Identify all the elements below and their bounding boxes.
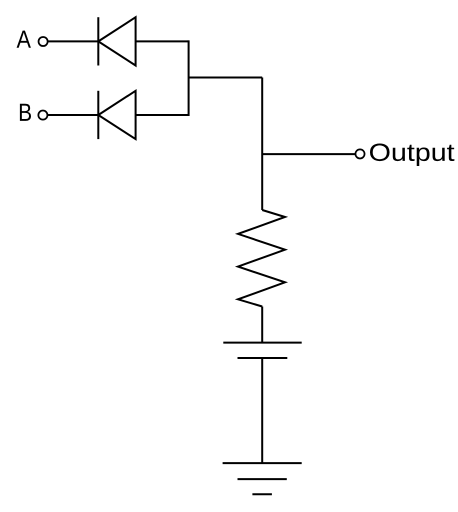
battery V1	[223, 343, 301, 358]
wire resistor to battery	[261, 307, 263, 343]
resistor R1	[238, 210, 285, 307]
wire main vertical to resistor	[261, 78, 263, 211]
wire junction to main vertical	[189, 77, 263, 79]
label B	[20, 104, 31, 121]
input terminal B	[38, 111, 47, 120]
output terminal	[355, 149, 364, 158]
input terminal A	[39, 37, 48, 46]
label Output	[370, 144, 454, 167]
wire joining diode outputs (vertical)	[188, 40, 190, 116]
label A	[17, 31, 31, 48]
diode D1	[98, 17, 135, 65]
wire diode D2 to corner	[136, 114, 189, 116]
wire to output terminal	[262, 153, 355, 155]
wire B terminal to diode D2	[47, 114, 98, 116]
wire A terminal to diode D1	[48, 40, 99, 42]
wire battery to ground	[261, 358, 263, 463]
wire diode D1 to corner	[136, 40, 189, 42]
diode D2	[98, 91, 135, 139]
ground	[223, 463, 302, 494]
